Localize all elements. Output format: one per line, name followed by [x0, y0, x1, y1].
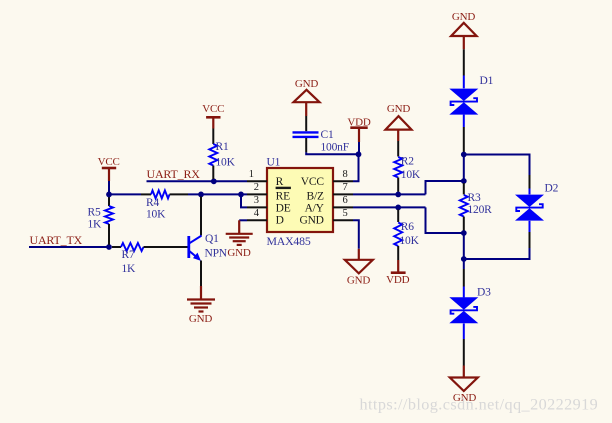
svg-text:RE: RE [276, 191, 290, 203]
junction R2/pin7 [395, 192, 401, 198]
junction C1/VDD/pin8 [356, 151, 362, 157]
net label UART_TX [30, 233, 83, 247]
resistor R4 [141, 190, 188, 220]
power VDD (bottom) [386, 260, 409, 286]
resistor R2 [394, 141, 421, 192]
svg-text:1K: 1K [88, 219, 103, 231]
wire R4 row (left) [109, 193, 141, 195]
svg-text:R: R [276, 176, 284, 188]
svg-text:DE: DE [276, 202, 291, 214]
svg-text:1: 1 [249, 169, 254, 180]
power GND (bottom right) [450, 378, 478, 404]
svg-text:NPN: NPN [205, 248, 228, 260]
pin 8 [333, 169, 353, 181]
IC U1 MAX485 body [267, 168, 333, 232]
diode D1 [449, 75, 493, 115]
junction R6/pin6 [395, 205, 401, 211]
wire R4 to pin2 [188, 193, 247, 195]
svg-text:A/Y: A/Y [305, 202, 325, 214]
wire pin4 to GND [239, 220, 247, 234]
ground GND (under Q1) [187, 300, 215, 326]
svg-text:GND: GND [347, 274, 370, 286]
power VCC (top) [202, 103, 224, 128]
capacitor C1 [293, 116, 349, 153]
junction node D1/D2/trunk [461, 152, 467, 158]
svg-text:GND: GND [295, 78, 318, 90]
power GND (top right) [451, 11, 477, 49]
pin 2 [247, 182, 267, 194]
svg-text:GND: GND [189, 313, 212, 325]
svg-text:VCC: VCC [202, 103, 224, 115]
svg-text:UART_RX: UART_RX [147, 167, 201, 181]
junction trunk/pin6 [461, 230, 467, 236]
transistor Q1 [189, 236, 202, 261]
ground GND (pin4) [226, 234, 253, 259]
svg-text:R1: R1 [216, 141, 229, 153]
svg-text:100nF: 100nF [321, 141, 349, 153]
resistor R7 [112, 243, 188, 275]
wire C1 to VDD node [306, 152, 358, 154]
wire trunk mid [463, 233, 465, 259]
wire D2 bottom to node [464, 221, 530, 259]
label Q1 [205, 233, 219, 245]
pin name VCC [301, 176, 325, 188]
pin 3 [247, 195, 267, 207]
svg-text:R7: R7 [122, 249, 135, 261]
wire branch to pin3 [241, 194, 247, 207]
resistor R5 [88, 197, 114, 245]
svg-text:UART_TX: UART_TX [30, 233, 83, 247]
svg-text:D2: D2 [545, 182, 559, 194]
svg-text:10K: 10K [400, 235, 420, 247]
wire pin7 jog to trunk [426, 181, 464, 194]
pin 6 [333, 195, 353, 207]
wire collector [200, 197, 202, 236]
svg-text:2: 2 [254, 182, 259, 193]
power GND (above C1) [294, 78, 320, 116]
wire pin5 to GND [353, 220, 359, 259]
svg-text:10K: 10K [216, 156, 236, 168]
wire node to D2 top [464, 155, 530, 195]
svg-text:Q1: Q1 [205, 233, 219, 245]
pin name B/Z [307, 191, 324, 203]
svg-text:VCC: VCC [98, 156, 120, 168]
svg-text:D: D [276, 215, 284, 227]
svg-text:R2: R2 [401, 155, 414, 167]
svg-text:C1: C1 [321, 129, 334, 141]
wire emitter [200, 261, 202, 300]
wire pin6 jog to trunk [426, 207, 464, 233]
power GND (below pin5) [345, 260, 373, 287]
label U1 [267, 157, 281, 169]
svg-text:5: 5 [343, 208, 348, 219]
junction R1/UART_RX [211, 178, 217, 184]
wire GND to D1 [463, 49, 465, 88]
wire pin7 row [353, 193, 426, 195]
svg-text:GND: GND [387, 103, 410, 115]
svg-text:VDD: VDD [386, 274, 409, 286]
svg-text:10K: 10K [401, 169, 421, 181]
junction collector [198, 192, 204, 198]
pin name A/Y [305, 202, 325, 214]
power GND (above R2) [386, 103, 412, 141]
svg-text:7: 7 [343, 182, 348, 193]
svg-text:D1: D1 [480, 75, 494, 87]
power VCC (left) [98, 156, 120, 194]
svg-text:8: 8 [343, 169, 348, 180]
svg-text:R6: R6 [401, 221, 414, 233]
wire pin6 row [353, 206, 426, 208]
svg-text:R4: R4 [146, 197, 159, 209]
overline RE [276, 187, 291, 189]
svg-text:MAX485: MAX485 [267, 234, 311, 248]
diode D3 [449, 286, 491, 323]
svg-text:VCC: VCC [301, 176, 325, 188]
svg-text:GND: GND [452, 11, 475, 23]
net label UART_RX [147, 167, 201, 181]
pin name DE [276, 202, 291, 214]
watermark [360, 396, 599, 414]
pin name RE [276, 191, 290, 203]
svg-text:GND: GND [299, 215, 323, 227]
pin 1 [247, 169, 267, 181]
pin 5 [333, 208, 353, 220]
svg-text:U1: U1 [267, 157, 281, 169]
svg-text:R5: R5 [88, 207, 101, 219]
wire trunk to D3 [463, 259, 465, 297]
svg-text:3: 3 [254, 195, 259, 206]
svg-text:B/Z: B/Z [307, 191, 324, 203]
pin name D [276, 215, 284, 227]
svg-text:6: 6 [343, 195, 348, 206]
pin 7 [333, 182, 353, 194]
pin 4 [247, 208, 267, 220]
wire UART_RX [147, 180, 248, 182]
svg-text:D3: D3 [477, 286, 491, 298]
wire trunk upper [463, 155, 465, 182]
power VDD (top) [347, 116, 370, 154]
pin name GND [299, 215, 323, 227]
resistor R6 [394, 210, 419, 261]
junction trunk/pin7 [461, 178, 467, 184]
junction VCC/R5/R4 [106, 192, 112, 198]
wire D3 to GND [463, 324, 465, 378]
resistor R1 [209, 129, 235, 180]
junction trunk/D2 bottom [461, 256, 467, 262]
resistor R3 [460, 183, 492, 231]
label NPN [205, 248, 228, 260]
svg-text:R3: R3 [468, 192, 481, 204]
svg-text:120R: 120R [468, 204, 493, 216]
svg-text:1K: 1K [122, 263, 137, 275]
svg-text:GND: GND [227, 247, 250, 259]
svg-text:https://blog.csdn.net/qq_20222: https://blog.csdn.net/qq_20222919 [360, 396, 599, 414]
svg-text:10K: 10K [146, 209, 166, 221]
junction pin2/pin3 branch [238, 192, 244, 198]
junction UART_TX/R5/R7 [106, 244, 112, 250]
label MAX485 [267, 234, 311, 248]
wire D1 to node [463, 115, 465, 153]
wire VDD to pin8 [353, 154, 359, 181]
pin name R [276, 176, 284, 188]
wire UART_TX [29, 246, 109, 248]
diode D2 [515, 182, 559, 220]
